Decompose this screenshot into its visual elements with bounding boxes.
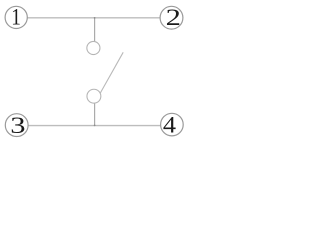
terminal 4 circle [161,113,184,136]
terminal 3 pin number [10,112,25,138]
wire from lower contact down to bottom rail [94,103,96,126]
wire bottom (terminal 3 to terminal 4) [28,125,161,127]
junction of top rail and stub [94,17,96,19]
junction of bottom rail and stub [94,125,96,127]
terminal 4 pin number [163,113,177,138]
terminal 3 circle [5,114,28,137]
terminal 1 circle [5,6,27,28]
wire top (terminal 1 to terminal 2) [27,17,160,19]
wire from top rail down to upper contact [94,18,96,42]
svg-text:4: 4 [163,113,177,138]
svg-text:3: 3 [10,112,25,138]
svg-text:1: 1 [11,4,21,30]
switch S1 lower contact [87,89,101,103]
switch S1 lever (open) [100,52,123,93]
terminal 1 pin number [11,4,21,30]
terminal 2 circle [160,6,183,29]
svg-text:2: 2 [166,4,181,30]
switch S1 upper contact [87,41,100,54]
terminal 2 pin number [166,4,181,30]
